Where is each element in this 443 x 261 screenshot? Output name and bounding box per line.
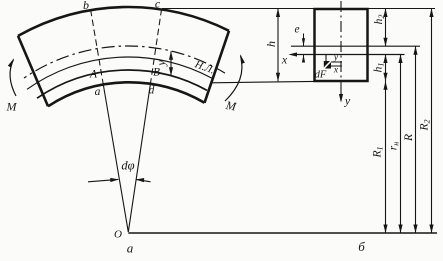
svg-text:x: x xyxy=(333,65,339,75)
dimension e xyxy=(303,34,305,47)
svg-text:М: М xyxy=(224,98,238,114)
svg-text:a: a xyxy=(95,86,101,98)
neutral axis x line xyxy=(296,54,405,56)
svg-text:dφ: dφ xyxy=(121,159,134,173)
svg-text:A: A xyxy=(89,69,98,81)
angle dφ dimension arrows xyxy=(88,179,118,181)
dimension h1 xyxy=(385,55,387,82)
left end face of bar xyxy=(18,36,48,106)
fiber AB arc xyxy=(37,70,207,98)
outer edge arc (radius R2 surface) xyxy=(18,7,229,36)
dimension h2 xyxy=(385,9,387,47)
section line d-B-c: solid below bar xyxy=(128,85,150,232)
elementary area dF xyxy=(325,55,327,62)
svg-text:R: R xyxy=(403,134,415,142)
svg-text:dF: dF xyxy=(315,69,327,80)
bottom reference line (inner radius level) xyxy=(212,81,315,82)
right moment arrow M xyxy=(225,56,242,102)
section line d-B-c: dashed through bar xyxy=(150,10,161,85)
dimension r_н xyxy=(400,55,402,234)
dF coordinate leader y xyxy=(331,61,342,63)
svg-text:h2: h2 xyxy=(373,15,386,25)
y axis arrow below section xyxy=(340,80,342,101)
left moment arrow M xyxy=(10,60,16,97)
svg-text:c: c xyxy=(155,0,161,11)
dimension y (fiber distance) xyxy=(170,51,172,76)
section line a-A-b: solid below bar xyxy=(103,85,128,232)
svg-text:М: М xyxy=(6,100,18,114)
dimension h xyxy=(277,9,279,82)
svg-text:rн: rн xyxy=(388,142,401,150)
vertical centerline of section (dash-dot) xyxy=(340,1,342,80)
svg-text:h: h xyxy=(264,41,278,47)
svg-text:R2: R2 xyxy=(419,119,432,131)
dimension R xyxy=(415,46,417,233)
cross-section rectangle xyxy=(315,9,368,81)
inner edge arc (radius R1 surface) xyxy=(48,82,205,106)
svg-text:y: y xyxy=(344,94,351,108)
centroid horizontal line xyxy=(291,45,420,47)
svg-text:x: x xyxy=(281,53,288,67)
neutral line arc Н.Л. xyxy=(27,57,212,89)
svg-text:y: y xyxy=(333,53,339,63)
dimension R1 xyxy=(385,81,387,233)
section line a-A-b: dashed through bar xyxy=(91,10,104,85)
svg-text:В: В xyxy=(153,67,160,79)
svg-text:e: e xyxy=(294,24,299,36)
svg-text:h1: h1 xyxy=(373,63,386,73)
right end face of bar (rotated section) xyxy=(205,31,230,103)
centroidal axis arc (dash-dot) xyxy=(24,46,225,78)
svg-text:R1: R1 xyxy=(372,146,385,158)
svg-text:d: d xyxy=(149,85,155,97)
svg-text:b: b xyxy=(83,0,89,12)
top reference line (outer radius level) xyxy=(162,8,435,10)
svg-text:O: O xyxy=(114,229,122,241)
dimension R2 xyxy=(431,9,433,234)
baseline from O xyxy=(128,232,437,234)
svg-text:а: а xyxy=(127,241,134,256)
dF coordinate leader x xyxy=(331,65,342,67)
svg-text:б: б xyxy=(358,239,365,254)
